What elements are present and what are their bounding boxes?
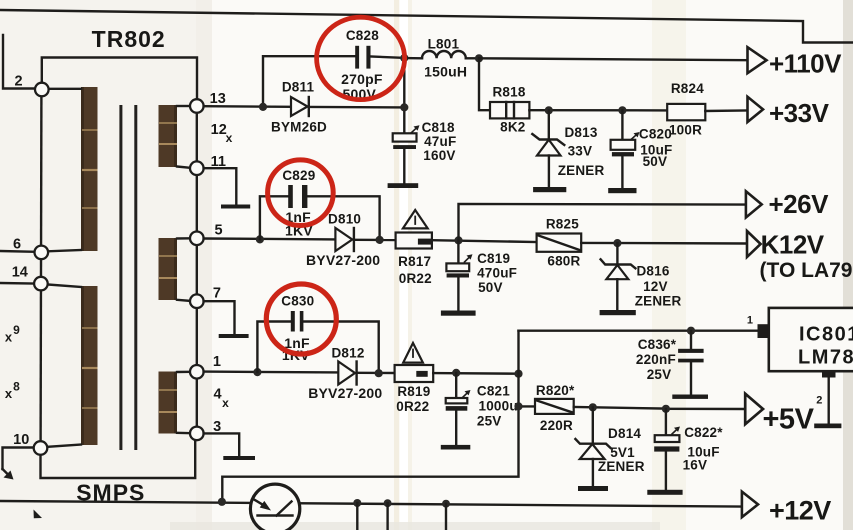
pin 12 unused (211, 122, 233, 145)
ground D816 (600, 310, 636, 315)
svg-text:100R: 100R (669, 123, 702, 138)
output arrow +5V (745, 394, 814, 436)
svg-text:33V: 33V (568, 144, 593, 159)
resistor R824 (667, 81, 705, 138)
highlight circle C829 (268, 160, 334, 226)
warning triangle R819 (403, 343, 423, 363)
wire D811 cathode to node B (310, 106, 404, 109)
wire pin 6 stub (0, 250, 35, 253)
transformer secondary winding pins 1-3 (159, 372, 191, 434)
svg-text:TR802: TR802 (92, 26, 166, 52)
wire primary rail pins 2-6-14-10 (39, 96, 42, 442)
label TO LA79 (760, 259, 853, 282)
pin 6 (13, 237, 48, 260)
svg-text:C836*: C836* (638, 337, 677, 352)
capacitor C836 (636, 331, 704, 395)
terminal bar pin11 stub (221, 205, 250, 209)
svg-text:+110V: +110V (769, 48, 842, 78)
svg-text:C819: C819 (477, 251, 510, 266)
capacitor C829 (282, 168, 315, 239)
resistor R818 (490, 84, 529, 134)
svg-text:25V: 25V (647, 367, 672, 382)
svg-text:IC801: IC801 (799, 324, 853, 346)
svg-text:L801: L801 (428, 36, 460, 51)
ground C820 (608, 188, 636, 193)
wire C829 left branch (260, 196, 288, 239)
wire R820 branch (519, 405, 536, 407)
terminal bar pin3 stub (223, 456, 255, 460)
wire pin11 stub (204, 168, 237, 203)
transformer core (121, 105, 136, 450)
svg-text:5V1: 5V1 (610, 445, 635, 460)
op-amp U1 regulator IC801 body (769, 308, 853, 371)
node x8 (5, 380, 20, 402)
pin 4 unused (213, 387, 229, 411)
inductor L801 (404, 36, 479, 79)
svg-text:C828: C828 (346, 28, 379, 43)
wire R817 to R825 (432, 240, 537, 242)
svg-text:D811: D811 (282, 80, 315, 95)
ground D813 (533, 187, 566, 192)
wire bottom rail (0, 501, 742, 507)
capacitor C822 (654, 409, 723, 490)
wire C829 right branch (307, 196, 379, 240)
svg-text:220R: 220R (540, 418, 573, 433)
highlight circle C828 (317, 17, 405, 99)
svg-text:5: 5 (215, 223, 223, 239)
diode D811 (271, 80, 327, 135)
capacitor C818 (393, 120, 457, 183)
junction C821 node (452, 369, 460, 377)
transistor Q1 error amp (250, 484, 299, 530)
svg-text:C818: C818 (422, 120, 455, 135)
wire C828 right branch (371, 57, 405, 58)
wire +26V branch (459, 204, 746, 241)
diode D812 (308, 346, 382, 402)
svg-text:BYM26D: BYM26D (271, 120, 327, 135)
svg-text:(TO LA79: (TO LA79 (760, 259, 853, 282)
zener D813 (532, 110, 604, 187)
svg-text:C821: C821 (477, 384, 510, 399)
junction bottom rail stub node 2 (384, 499, 392, 507)
ground D814 (578, 486, 608, 491)
svg-text:1: 1 (747, 315, 753, 327)
wire R819 to main vertical (433, 372, 518, 375)
svg-text:D816: D816 (636, 264, 669, 279)
wire IC input rail (519, 330, 758, 332)
junction +110V node (475, 54, 483, 62)
svg-text:0R22: 0R22 (396, 399, 429, 414)
svg-text:+26V: +26V (769, 189, 830, 219)
svg-text:150uH: 150uH (424, 64, 467, 80)
wire stub down 1 (356, 503, 358, 530)
diode D810 (306, 211, 380, 268)
wire top rail off-page (0, 10, 853, 43)
wire +110V rail (479, 58, 748, 60)
transformer secondary winding pins 13-11 (159, 105, 191, 168)
wire pin 14 stub (0, 282, 34, 285)
wire R818 to R824 (529, 109, 667, 112)
highlight circle C830 (266, 284, 336, 354)
wire left stub to pin 2 (3, 35, 36, 89)
junction C830 right node (375, 369, 383, 377)
svg-text:1000u: 1000u (479, 399, 518, 414)
transformer TR802 label (92, 26, 166, 52)
wire C830 right branch (303, 322, 378, 374)
terminal bar pin7 stub (219, 334, 249, 338)
output arrow +110V (748, 47, 843, 78)
svg-text:R817: R817 (398, 254, 431, 269)
wire R818 branch down (479, 58, 490, 110)
junction main vertical top of R819 rail (514, 370, 522, 378)
svg-text:270pF: 270pF (341, 71, 383, 87)
wire pin 10 exit (3, 448, 34, 470)
junction C829 left node (256, 235, 264, 243)
svg-text:K12V: K12V (761, 229, 825, 259)
wire stub down 2 (386, 503, 388, 530)
svg-text:ZENER: ZENER (598, 459, 645, 474)
svg-text:6: 6 (13, 237, 21, 253)
label SMPS (76, 480, 145, 506)
svg-text:R819: R819 (397, 384, 430, 399)
wire D812 cathode to R819 (358, 372, 395, 375)
pin 11 (190, 154, 226, 175)
svg-text:2: 2 (816, 394, 822, 406)
svg-text:C830: C830 (281, 293, 314, 308)
capacitor C821 (446, 373, 518, 445)
output arrow +12V (742, 492, 831, 526)
svg-text:220nF: 220nF (636, 352, 676, 367)
svg-text:R825: R825 (546, 217, 579, 232)
wire secondary rail pins 13-3 (196, 100, 198, 433)
svg-text:D813: D813 (564, 125, 597, 140)
capacitor C819 (446, 240, 517, 310)
resistor R819 fusible (395, 365, 434, 414)
svg-text:C829: C829 (282, 168, 315, 183)
wire main vertical rail to bottom (222, 331, 518, 502)
warning triangle R817 (403, 210, 428, 228)
transformer primary winding lower (47, 285, 97, 447)
wire pin 10 to pin 3 bottom return (41, 441, 196, 479)
wire pin7 stub (204, 301, 235, 333)
output arrow K12V (747, 229, 825, 259)
svg-text:R820*: R820* (536, 383, 575, 398)
wire node B vertical (403, 58, 405, 133)
junction node B top (400, 54, 408, 62)
pin 2 (14, 74, 48, 97)
pin 14 (12, 265, 48, 291)
svg-text:7: 7 (213, 286, 221, 302)
svg-text:C822*: C822* (684, 425, 723, 440)
wire D810 cathode to R817 (355, 239, 396, 242)
svg-text:BYV27-200: BYV27-200 (306, 252, 380, 268)
transformer primary winding upper (48, 87, 97, 251)
svg-text:x: x (222, 396, 229, 410)
ground C819 (441, 311, 476, 316)
svg-text:ZENER: ZENER (635, 293, 682, 308)
junction pin13 node at C828 (259, 103, 267, 111)
svg-text:10: 10 (13, 432, 29, 448)
wire transformer top loop pin2 to pin13 (42, 58, 197, 100)
svg-text:160V: 160V (423, 148, 455, 163)
svg-text:50V: 50V (643, 154, 668, 169)
junction C836 node (687, 327, 695, 335)
wire C830 left branch (257, 322, 290, 373)
wire C828 left branch (263, 56, 355, 107)
svg-text:9: 9 (13, 323, 20, 337)
junction D813 node (545, 106, 553, 114)
node x9 (5, 323, 20, 345)
ground C822 (647, 490, 682, 495)
zener D816 (601, 243, 682, 310)
svg-text:12: 12 (211, 122, 227, 138)
svg-text:470uF: 470uF (477, 266, 517, 281)
op-amp U1 regulator IC801 pin 2 (816, 371, 835, 424)
junction +26V branch node (454, 236, 462, 244)
svg-text:1: 1 (213, 354, 221, 370)
svg-text:25V: 25V (477, 413, 502, 428)
capacitor C820 (611, 110, 673, 188)
svg-text:+33V: +33V (769, 98, 830, 128)
junction bottom rail left node (218, 498, 226, 506)
junction node B at D811 (400, 103, 408, 111)
wire stub down 3 (445, 504, 447, 530)
resistor R825 (537, 217, 582, 269)
svg-text:+5V: +5V (763, 403, 815, 435)
svg-text:0R22: 0R22 (399, 271, 432, 286)
svg-text:BYV27-200: BYV27-200 (308, 385, 382, 401)
svg-text:ZENER: ZENER (558, 163, 605, 178)
svg-text:8K2: 8K2 (500, 120, 525, 135)
svg-text:x: x (226, 131, 233, 145)
junction D814 node (589, 403, 597, 411)
svg-text:D814: D814 (608, 426, 641, 441)
junction D816 node (613, 239, 621, 247)
svg-text:LM7805: LM7805 (798, 347, 853, 369)
wire pin1 to D812 anode (204, 370, 339, 373)
svg-text:16V: 16V (683, 457, 708, 472)
pin 5 (190, 223, 223, 246)
svg-text:D810: D810 (328, 211, 361, 226)
svg-text:680R: 680R (547, 254, 580, 269)
svg-text:R818: R818 (492, 84, 525, 99)
pin 10 (13, 432, 47, 455)
output arrow +26V (746, 189, 829, 219)
op-amp U1 regulator IC801 pin 1 pad (747, 315, 769, 339)
resistor R817 fusible (396, 233, 432, 286)
wire R825 to K12V (581, 242, 746, 245)
transformer secondary winding pins 5-7 (159, 238, 191, 301)
ground IC801 pin 2 (814, 424, 841, 429)
junction C829 right node (376, 236, 384, 244)
svg-text:+12V: +12V (769, 496, 831, 526)
ground C818 (388, 183, 419, 188)
ground C836 (672, 395, 708, 399)
svg-text:4: 4 (213, 387, 221, 403)
junction C822 node (662, 405, 670, 413)
wire R824 to +33V (705, 109, 747, 112)
wire R820 to +5V node (574, 407, 666, 409)
svg-text:C820: C820 (639, 126, 672, 141)
junction C830 left node (253, 368, 261, 376)
pin 7 (190, 286, 221, 309)
capacitor C830 (281, 293, 314, 363)
svg-text:12V: 12V (643, 279, 668, 294)
output arrow +33V (748, 97, 830, 128)
wire +5V node to arrow (666, 408, 746, 411)
arrow off-page lower-left (3, 469, 14, 480)
svg-text:R824: R824 (671, 81, 704, 96)
svg-text:D812: D812 (331, 346, 364, 361)
svg-text:13: 13 (210, 91, 226, 107)
pin 1 (190, 354, 221, 379)
svg-text:x: x (5, 386, 13, 401)
wire pin13 to D811 anode (204, 105, 291, 108)
arrow mark lower-left of SMPS (34, 510, 43, 519)
wire pin5 to D810 anode (204, 237, 336, 240)
zener D814 (575, 407, 644, 486)
pin 3 (190, 419, 221, 440)
wire pin3 stub (204, 433, 240, 455)
svg-text:8: 8 (13, 380, 20, 394)
junction bottom rail stub node 1 (353, 499, 361, 507)
capacitor C828 (341, 28, 383, 102)
svg-text:2: 2 (14, 74, 22, 90)
resistor R820 (535, 383, 575, 433)
pin 13 (190, 91, 226, 113)
junction R820 branch node (514, 402, 522, 410)
junction bottom rail stub node 3 (442, 500, 450, 508)
ground C821 (441, 445, 471, 450)
svg-text:x: x (5, 330, 13, 345)
svg-text:50V: 50V (478, 280, 503, 295)
svg-text:14: 14 (12, 265, 28, 281)
junction C820 node (618, 106, 626, 114)
